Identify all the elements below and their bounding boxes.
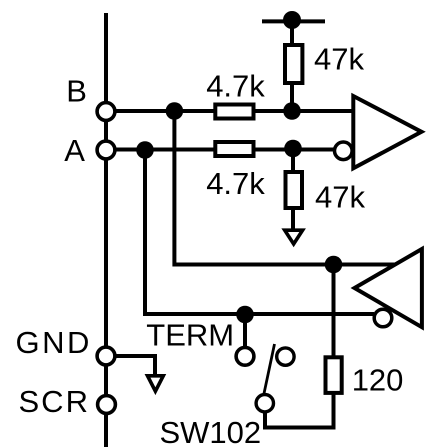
svg-text:4.7k: 4.7k: [206, 166, 265, 201]
node: TERM junction dot: [236, 306, 254, 324]
op-amp U2: driver triangle (points left): [355, 249, 422, 327]
wire: A line from bus to inverting bubble: [106, 148, 334, 152]
wire: stub 47k top to B line: [290, 80, 294, 111]
wire: B line from bus to receiver input: [106, 109, 354, 113]
node SCR: terminal circle on bus: [98, 396, 116, 414]
resistor R 47k (top pull-up): [285, 45, 302, 83]
svg-text:SW102: SW102: [160, 415, 262, 447]
ground: symbol below 47k: [285, 230, 303, 244]
node GND: terminal circle on bus: [97, 347, 115, 365]
node: junction dot A line left: [136, 141, 154, 159]
switch SW102: upper contact: [277, 348, 294, 365]
resistor R 4.7k (B line): [215, 105, 253, 119]
wire: stub top rail to 47k: [290, 20, 294, 50]
switch SW102: lower contact: [256, 395, 273, 412]
wire: 120 ohm chain from driver junction to switch: [265, 265, 334, 428]
node: TERM open terminal: [236, 347, 254, 365]
resistor R 120 (termination): [326, 357, 342, 393]
wire: TERM stub down to terminal: [243, 314, 247, 348]
node: junction dot driver input: [325, 256, 343, 274]
svg-text:SCR: SCR: [19, 384, 90, 419]
node: junction dot B line right: [283, 102, 301, 120]
svg-text:120: 120: [352, 363, 404, 398]
resistor R 47k (bottom pull-down): [286, 172, 303, 208]
node: junction dot B line left: [166, 102, 184, 120]
svg-text:47k: 47k: [314, 42, 364, 77]
ground: symbol near GND: [148, 376, 164, 391]
op-amp U1: receiver triangle: [353, 96, 421, 168]
svg-text:GND: GND: [16, 325, 92, 360]
svg-text:B: B: [66, 74, 87, 109]
wire: top rail bar: [262, 19, 325, 23]
node B: terminal circle on bus: [97, 103, 115, 121]
node: junction dot A line right: [284, 140, 302, 158]
wire: A junction down and right to driver bubble: [145, 150, 374, 314]
svg-text:A: A: [64, 133, 85, 168]
svg-text:TERM: TERM: [146, 318, 234, 353]
wire: stub A junction down to 47k bottom: [291, 148, 295, 175]
switch SW102: lever: [264, 344, 275, 394]
wire: left vertical bus: [104, 13, 108, 447]
svg-text:47k: 47k: [315, 180, 365, 215]
node: top rail junction dot: [283, 11, 301, 29]
wire: B junction down and right to driver upper edge: [174, 111, 395, 265]
node A: terminal circle on bus: [97, 141, 115, 159]
wire: stub 47k bottom to ground: [291, 205, 295, 230]
wire: GND circle to ground symbol: [114, 356, 155, 376]
resistor R 4.7k (A line): [215, 142, 253, 156]
node: receiver inverting input bubble: [335, 142, 353, 160]
svg-text:4.7k: 4.7k: [206, 69, 265, 104]
node: driver bubble: [374, 309, 392, 327]
